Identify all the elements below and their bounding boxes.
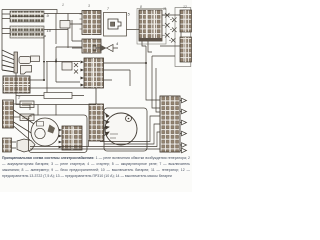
wire bus vertical (44, 36, 46, 60)
svg-text:3: 3 (88, 4, 90, 8)
left edge bus wire (1, 10, 3, 71)
diag wires X7 (14, 110, 41, 140)
tag box B (14, 114, 35, 121)
connector X6 (84, 58, 104, 88)
horn polygon 13 (17, 139, 35, 152)
X9 arrows (180, 98, 187, 153)
wire shunt (16, 62, 84, 96)
fuse box F2 (10, 26, 44, 38)
box around X3 (137, 9, 166, 45)
switch symbol 4 (93, 41, 119, 52)
junction dots (43, 61, 147, 65)
wires top of boxes (16, 96, 96, 116)
generator (105, 113, 137, 145)
battery 2 (3, 76, 30, 100)
wire lighter to X3 (127, 29, 140, 31)
junction (43, 79, 45, 81)
starter motor (31, 118, 59, 146)
tag box A (14, 101, 35, 108)
caption text (2, 155, 190, 179)
wire battery (30, 62, 96, 109)
small cluster 6 (55, 57, 78, 74)
svg-text:8: 8 (140, 5, 142, 9)
connector X9 (160, 96, 180, 152)
wire from X3 down (142, 41, 152, 52)
wires center (46, 47, 146, 86)
svg-text:7: 7 (107, 7, 109, 11)
fan arrows X8 (104, 112, 110, 136)
wire to F2 (2, 29, 10, 34)
connector X3 (139, 10, 162, 41)
svg-text:1: 1 (62, 3, 64, 7)
svg-text:11: 11 (163, 7, 167, 11)
wire F2 right (44, 14, 72, 49)
svg-text:10: 10 (47, 28, 52, 33)
bottom left switch (3, 138, 17, 152)
wire X5 link (152, 15, 181, 56)
wire F1 to X1 (44, 13, 82, 15)
connector X5 (180, 37, 192, 62)
connector X2 (82, 39, 101, 53)
X6 pin arrows (81, 61, 85, 87)
wire relay (56, 14, 82, 49)
connector X7 (3, 100, 14, 128)
lamp cluster (162, 13, 177, 43)
right vertical wires (146, 46, 160, 112)
generator box 1 (104, 108, 147, 151)
tiny ref marks top (62, 3, 187, 11)
fuse box F1 (10, 11, 44, 22)
bottom bus wires (30, 116, 160, 149)
connector X1 (80, 11, 102, 35)
box around X4 X5 (175, 8, 191, 67)
starter grid (62, 126, 82, 150)
ignition switch 7 (2, 50, 40, 74)
lighter box 5 (104, 12, 131, 37)
relay K (60, 21, 70, 29)
starter box 5 (29, 115, 88, 153)
wire to F1 (2, 14, 10, 19)
connector X4 (180, 10, 192, 32)
connector X8 (89, 104, 104, 141)
top wire (2, 10, 57, 14)
shunt bar (44, 93, 72, 99)
starter grid pins (59, 129, 62, 149)
svg-text:12: 12 (183, 5, 187, 9)
